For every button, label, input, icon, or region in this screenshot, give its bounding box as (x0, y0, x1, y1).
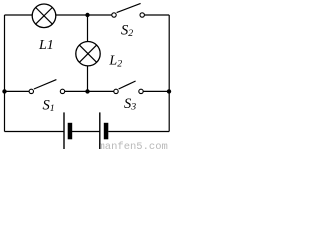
battery cell 1 positive plate (63, 112, 65, 149)
wire battery middle segment (72, 131, 100, 133)
lamp L2 (76, 42, 100, 66)
wire switch row S1 left lead (5, 90, 32, 92)
switch S1 (29, 80, 65, 94)
wire left vertical (4, 15, 6, 132)
wire middle branch vertical (87, 15, 89, 91)
svg-text:manfen5.com: manfen5.com (99, 141, 168, 151)
svg-text:L1: L1 (38, 38, 54, 53)
wire top horizontal left (5, 14, 115, 16)
battery cell 2 negative plate (104, 123, 109, 140)
wire switch row S3 left lead (88, 90, 117, 92)
lamp L1 (32, 4, 56, 28)
wire switch row S3 to right node (141, 90, 169, 92)
node junction top middle (85, 13, 89, 17)
node junction left (2, 89, 6, 93)
node junction middle (85, 89, 89, 93)
battery cell 1 negative plate (68, 123, 73, 140)
wire right vertical (168, 15, 170, 132)
switch S2 (112, 3, 145, 17)
wire bottom right segment (108, 131, 169, 133)
battery cell 2 positive plate (99, 112, 101, 149)
node junction right (167, 89, 171, 93)
switch S3 (114, 81, 143, 94)
wire top horizontal right (142, 14, 169, 16)
wire bottom left segment (5, 131, 65, 133)
wire switch row S1 to middle node (63, 90, 88, 92)
